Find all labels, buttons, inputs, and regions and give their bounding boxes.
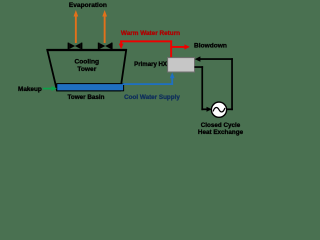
- svg-text:Tower Basin: Tower Basin: [68, 94, 105, 101]
- pump / heat exchanger circle: [211, 102, 226, 117]
- cool water supply pipe (blue): [123, 72, 175, 85]
- closed cycle loop (black): [195, 56, 233, 111]
- warm water return pipe (red): [119, 40, 172, 57]
- evaporation arrow right: [102, 10, 107, 43]
- svg-text:Cooling: Cooling: [75, 58, 100, 65]
- valve V1 (fan symbol): [68, 43, 83, 49]
- arrowhead left into HX: [195, 56, 201, 61]
- svg-text:Cool Water Supply: Cool Water Supply: [124, 94, 180, 101]
- svg-text:Blowdown: Blowdown: [194, 43, 227, 50]
- wire: top run back to HX: [200, 58, 233, 60]
- blowdown branch (red): [171, 44, 190, 49]
- wire: drop into tower: [120, 40, 122, 44]
- svg-text:Closed Cycle: Closed Cycle: [201, 122, 241, 129]
- wire: HX outlet stub right: [195, 66, 204, 68]
- wire: up leg: [231, 58, 233, 110]
- cooling tower shell: [47, 50, 126, 91]
- primary HX box: [168, 58, 195, 72]
- evaporation arrow left: [74, 10, 79, 43]
- sine wave inside circle: [213, 107, 225, 111]
- svg-text:Evaporation: Evaporation: [69, 2, 107, 9]
- svg-text:Warm Water Return: Warm Water Return: [121, 30, 180, 37]
- wire: horizontal from basin: [123, 83, 174, 85]
- svg-text:Primary HX: Primary HX: [134, 61, 168, 68]
- wire: bottom run to pump: [201, 108, 206, 110]
- wire: bottom run from pump: [227, 108, 233, 110]
- valve V2 (fan symbol): [98, 43, 113, 49]
- wire: drop to HX: [170, 40, 172, 57]
- arrowhead right into pump: [207, 107, 212, 112]
- wire: horizontal run: [120, 40, 172, 42]
- tower top edge (thick): [47, 49, 128, 51]
- makeup line (green): [43, 86, 57, 91]
- svg-text:Heat Exchange: Heat Exchange: [198, 129, 244, 136]
- arrowhead up into HX: [170, 72, 175, 78]
- svg-text:Makeup: Makeup: [18, 86, 42, 93]
- wire: riser to HX: [171, 78, 173, 86]
- arrowhead down into tower: [119, 44, 124, 50]
- tower basin (blue): [57, 84, 124, 91]
- wire: down leg: [201, 66, 203, 110]
- svg-text:Tower: Tower: [77, 66, 96, 73]
